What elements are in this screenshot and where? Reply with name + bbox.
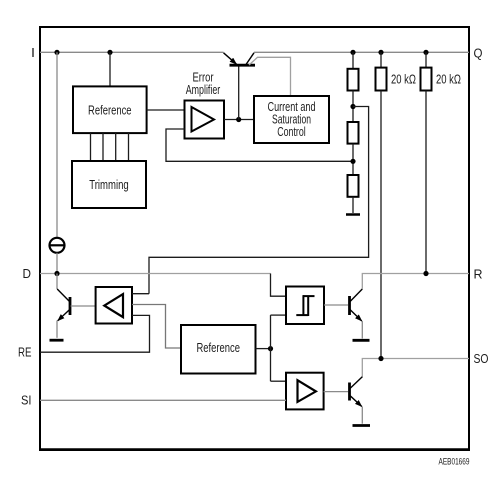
svg-text:Trimming: Trimming bbox=[89, 177, 129, 192]
ground (divider) bbox=[346, 213, 360, 216]
ground (Q4) bbox=[353, 424, 371, 427]
wire: Q2 base to receiver bbox=[71, 305, 96, 307]
wire: Reference to error amplifier input bbox=[147, 109, 185, 111]
svg-text:I: I bbox=[31, 45, 35, 60]
block: Trimming bbox=[72, 161, 146, 208]
resistor R3 bbox=[348, 175, 359, 197]
wire: driver output to Q4 base bbox=[324, 391, 348, 393]
wire: R2 to R3 bbox=[352, 144, 354, 175]
svg-text:Reference: Reference bbox=[88, 103, 132, 118]
node: rail junction x110 bbox=[107, 50, 112, 55]
node: reference output junction bbox=[268, 346, 273, 351]
wire: rail to resistor R1 bbox=[352, 52, 354, 69]
wire: receiver top output to tap wire bbox=[132, 293, 149, 295]
wire: trimming lines (4) bbox=[91, 133, 129, 161]
wire: Reference output to node bbox=[256, 348, 271, 350]
node: EA output junction bbox=[236, 117, 241, 122]
svg-text:R: R bbox=[474, 267, 483, 282]
wire: R1 to R2 bbox=[352, 91, 354, 123]
wire: R net bbox=[362, 274, 469, 289]
svg-text:20 kΩ: 20 kΩ bbox=[391, 72, 416, 87]
node: rail junction x353 bbox=[350, 50, 355, 55]
wire: R4 to SO node bbox=[380, 91, 382, 359]
wire: EA output to Current and Saturation Control bbox=[224, 119, 254, 121]
wire: rail to resistor R4 bbox=[380, 52, 382, 67]
wire: R5 to R node bbox=[425, 91, 427, 274]
ground (Q3) bbox=[353, 339, 370, 342]
resistor R5 (20 kOhm) bbox=[421, 68, 432, 91]
block: Reference (bottom) bbox=[181, 325, 256, 374]
svg-text:SI: SI bbox=[21, 393, 32, 408]
wire: SI net bbox=[40, 399, 286, 401]
transistor Q1 (PNP pass transistor) bbox=[224, 53, 256, 65]
border frame bbox=[40, 27, 469, 450]
node: SO net to R4 junction bbox=[378, 356, 383, 361]
svg-text:Control: Control bbox=[277, 124, 306, 139]
svg-text:Reference: Reference bbox=[196, 340, 240, 355]
resistor R2 bbox=[348, 122, 359, 144]
wire: Q1 collector to CSC top (gray) bbox=[249, 57, 291, 96]
node: R net to R5 junction bbox=[423, 271, 428, 276]
node: D junction bbox=[54, 271, 59, 276]
wire: current source to D net bbox=[56, 253, 58, 274]
wire: tap 1 to receiver input bbox=[149, 107, 369, 294]
label: Error Amplifier bbox=[186, 70, 221, 98]
schmitt trigger U5 bbox=[286, 287, 324, 325]
wire: reference node to schmitt and driver inputs bbox=[271, 315, 287, 381]
wire: EA feedback to divider tap 2 bbox=[166, 129, 353, 161]
wire: base of Q1 bbox=[238, 67, 240, 120]
node: divider tap 1 bbox=[350, 104, 355, 109]
svg-text:D: D bbox=[23, 266, 32, 281]
wire: D net bbox=[40, 273, 271, 275]
node: rail junction x57 bbox=[54, 50, 59, 55]
node: rail junction x381 bbox=[378, 50, 383, 55]
block: Reference (top) bbox=[73, 86, 147, 133]
svg-text:Q: Q bbox=[474, 46, 483, 61]
wire: top supply rail I to Q bbox=[40, 51, 469, 53]
wire: rail to Reference bbox=[109, 52, 111, 86]
wire: schmitt output to Q3 base bbox=[324, 304, 348, 306]
transistor Q4 (SO output) bbox=[350, 377, 363, 424]
op-amp U2 (error amplifier) bbox=[185, 101, 225, 139]
svg-text:AEB01669: AEB01669 bbox=[439, 457, 470, 468]
wire: rail to current source bbox=[56, 52, 58, 238]
svg-text:SO: SO bbox=[474, 351, 489, 366]
current source CS1 bbox=[50, 238, 65, 253]
receiver buffer U3 bbox=[96, 287, 132, 324]
wire: rail to resistor R5 bbox=[425, 52, 427, 67]
wire: receiver bottom output to RE pin bbox=[40, 315, 150, 352]
svg-text:Amplifier: Amplifier bbox=[186, 82, 221, 97]
wire: SO net bbox=[362, 359, 469, 378]
resistor R1 bbox=[348, 69, 359, 91]
transistor Q2 (D pull-down) bbox=[57, 274, 70, 338]
wire: receiver middle output to Reference (bottom) bbox=[132, 305, 181, 349]
ground (Q2) bbox=[50, 339, 64, 342]
wire: R3 to ground bbox=[352, 197, 354, 213]
block: Current and Saturation Control bbox=[254, 96, 329, 143]
svg-text:RE: RE bbox=[18, 344, 32, 359]
node: rail junction x426 bbox=[423, 50, 428, 55]
node: divider tap 2 bbox=[350, 159, 355, 164]
driver buffer U6 bbox=[286, 373, 324, 410]
transistor Q3 (R output) bbox=[350, 289, 363, 339]
svg-text:20 kΩ: 20 kΩ bbox=[436, 72, 461, 87]
resistor R4 (20 kOhm) bbox=[376, 68, 387, 91]
